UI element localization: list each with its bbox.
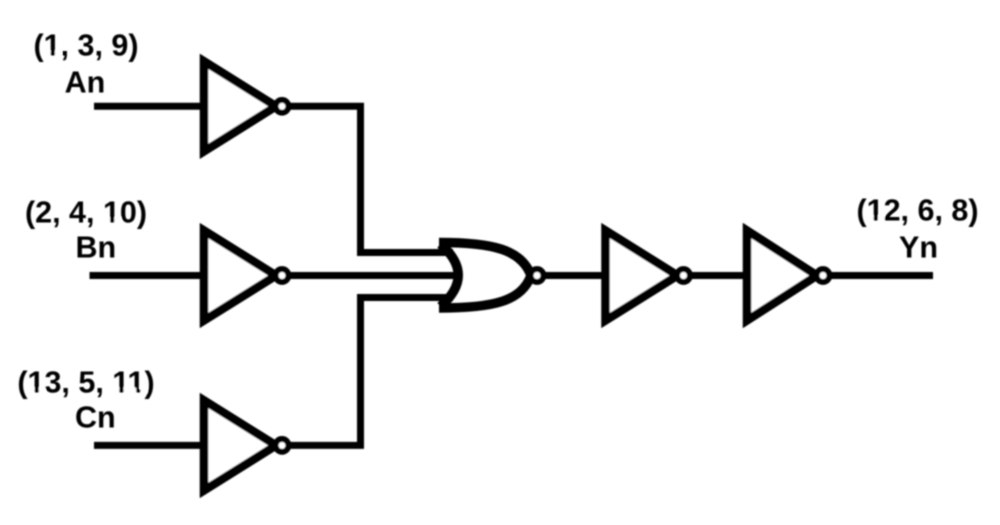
svg-text:(1, 3, 9): (1, 3, 9) bbox=[33, 29, 138, 63]
inverter U1 bubble bbox=[276, 100, 289, 113]
wire Yn output bbox=[830, 272, 933, 279]
svg-text:Yn: Yn bbox=[899, 231, 938, 265]
wire inverter U1 output to NOR top input bbox=[288, 106, 453, 252]
svg-text:Bn: Bn bbox=[75, 231, 116, 265]
svg-text:Cn: Cn bbox=[75, 401, 116, 435]
wire NOR output to inverter U4 bbox=[544, 272, 605, 279]
NOR gate G1 input-side arc bbox=[441, 244, 459, 307]
inverter U4 bubble bbox=[677, 269, 690, 282]
NOR gate G1 bubble bbox=[531, 269, 544, 282]
inverter U3 triangle bbox=[204, 400, 276, 490]
NOR gate G1 body bbox=[439, 243, 531, 309]
inverter U2 bubble bbox=[276, 269, 289, 282]
inverter U5 bubble bbox=[817, 269, 830, 282]
inverter U2 triangle bbox=[204, 231, 276, 321]
wire Cn input bbox=[94, 442, 206, 449]
inverter U3 bubble bbox=[276, 439, 289, 452]
inverter U5 triangle bbox=[747, 231, 817, 321]
wire inverter U3 output to NOR bottom input bbox=[288, 298, 453, 446]
wire inverter U4 to inverter U5 bbox=[691, 272, 750, 279]
digit-1 serif masks bbox=[44, 51, 51, 56]
inverter U1 triangle bbox=[204, 61, 276, 151]
inverter U4 triangle bbox=[606, 231, 678, 321]
svg-text:An: An bbox=[65, 66, 106, 100]
svg-text:(13, 5, 11): (13, 5, 11) bbox=[17, 365, 154, 399]
svg-text:(2, 4, 10): (2, 4, 10) bbox=[25, 195, 147, 229]
svg-text:(12, 6, 8): (12, 6, 8) bbox=[856, 193, 978, 227]
wire An input bbox=[94, 103, 206, 110]
wire Bn input bbox=[90, 272, 463, 279]
